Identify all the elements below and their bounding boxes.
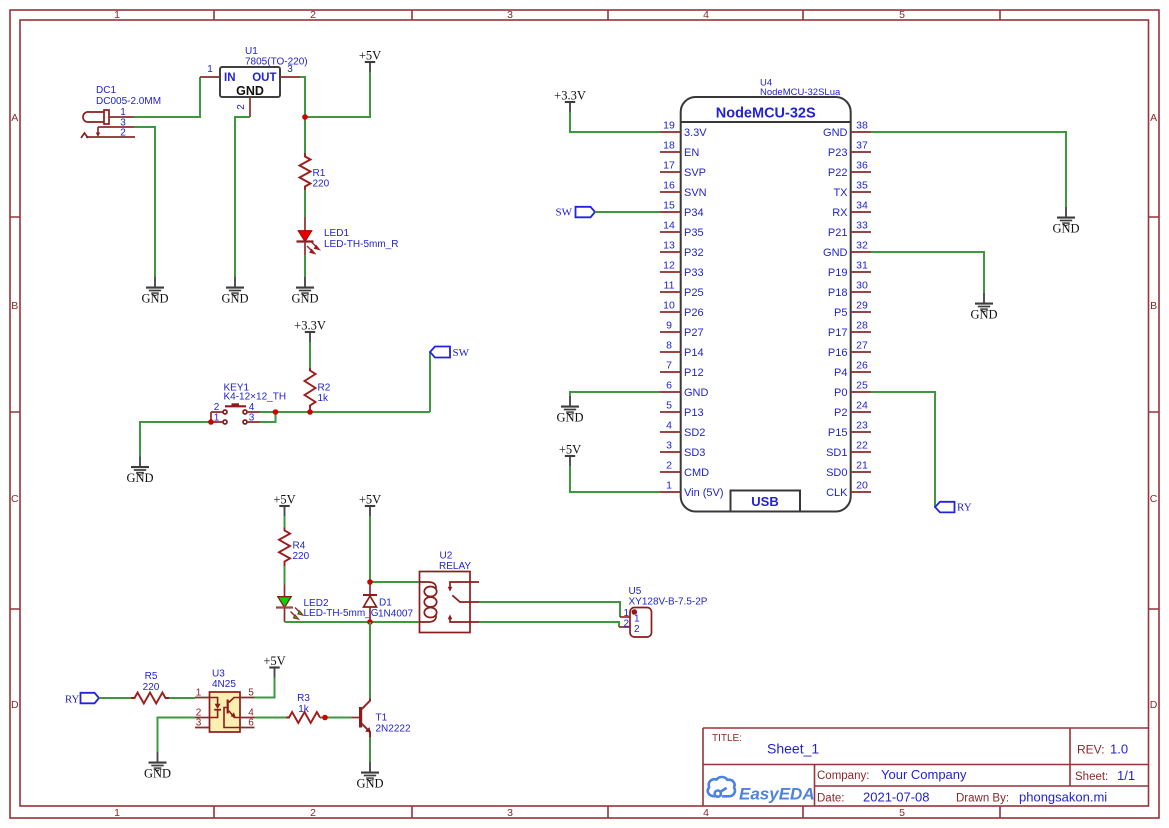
wire MCU pin25 to RY port bbox=[871, 392, 935, 507]
wire +5V to R4 bbox=[284, 516, 286, 528]
svg-text:P21: P21 bbox=[828, 227, 848, 239]
svg-text:R4: R4 bbox=[293, 541, 306, 552]
svg-text:12: 12 bbox=[663, 260, 675, 272]
svg-text:37: 37 bbox=[856, 140, 868, 152]
svg-text:1/1: 1/1 bbox=[1117, 768, 1135, 783]
junction (R3 / base) bbox=[322, 715, 328, 721]
svg-text:Date:: Date: bbox=[817, 793, 845, 805]
svg-text:P2: P2 bbox=[834, 407, 847, 419]
wire RY port to R5 bbox=[99, 697, 131, 699]
diode D1 1N4007 bbox=[363, 582, 413, 622]
svg-text:D1: D1 bbox=[379, 598, 392, 609]
svg-text:P22: P22 bbox=[828, 167, 848, 179]
svg-text:8: 8 bbox=[666, 340, 672, 352]
svg-text:2: 2 bbox=[120, 128, 126, 139]
net port SW (to MCU P34) bbox=[556, 207, 596, 219]
svg-text:RX: RX bbox=[832, 207, 848, 219]
svg-text:7805(TO-220): 7805(TO-220) bbox=[245, 57, 308, 68]
svg-text:35: 35 bbox=[856, 180, 868, 192]
svg-text:U3: U3 bbox=[212, 669, 225, 680]
regulator U1 7805(TO-220) bbox=[200, 46, 308, 117]
svg-text:GND: GND bbox=[141, 292, 168, 306]
svg-text:20: 20 bbox=[856, 480, 868, 492]
svg-text:D: D bbox=[11, 699, 19, 711]
resistor R3 1k bbox=[286, 693, 320, 723]
svg-text:REV:: REV: bbox=[1077, 743, 1105, 757]
svg-text:GND: GND bbox=[291, 292, 318, 306]
svg-text:B: B bbox=[11, 300, 18, 312]
svg-text:38: 38 bbox=[856, 120, 868, 132]
wire R1 to LED1 bbox=[304, 190, 306, 217]
net port SW (to key) bbox=[430, 347, 470, 360]
svg-text:5: 5 bbox=[248, 688, 254, 699]
wire R4 to LED2 bbox=[284, 566, 286, 585]
svg-text:5: 5 bbox=[899, 807, 905, 819]
svg-text:1: 1 bbox=[214, 413, 220, 424]
svg-text:Drawn By:: Drawn By: bbox=[956, 793, 1009, 805]
svg-text:33: 33 bbox=[856, 220, 868, 232]
resistor R2 1k bbox=[305, 368, 331, 412]
svg-text:SD2: SD2 bbox=[684, 427, 705, 439]
svg-text:RY: RY bbox=[65, 694, 80, 706]
LED LED1 LED-TH-5mm_R bbox=[297, 217, 399, 255]
svg-text:2021-07-08: 2021-07-08 bbox=[863, 790, 930, 805]
svg-text:SVP: SVP bbox=[684, 167, 706, 179]
svg-text:P17: P17 bbox=[828, 327, 848, 339]
svg-text:2: 2 bbox=[623, 619, 629, 630]
svg-text:P25: P25 bbox=[684, 287, 704, 299]
svg-text:24: 24 bbox=[856, 400, 868, 412]
wire MCU pin6 to GND bbox=[570, 392, 660, 396]
wire DC1.1 to U1.IN bbox=[134, 77, 200, 117]
svg-text:2: 2 bbox=[214, 402, 220, 413]
svg-text:SD0: SD0 bbox=[826, 467, 847, 479]
svg-text:1k: 1k bbox=[298, 704, 310, 715]
svg-text:220: 220 bbox=[293, 551, 310, 562]
svg-text:+5V: +5V bbox=[559, 443, 581, 457]
svg-text:B: B bbox=[1150, 300, 1157, 312]
wire SW port to pin15 bbox=[595, 211, 660, 213]
svg-text:1k: 1k bbox=[318, 393, 330, 404]
svg-text:2: 2 bbox=[236, 104, 247, 110]
ground GND (MCU pin38) bbox=[1052, 207, 1079, 236]
power flag +5V (R4) bbox=[273, 493, 295, 517]
svg-text:P4: P4 bbox=[834, 367, 847, 379]
svg-text:5: 5 bbox=[899, 9, 905, 21]
wire U3.4 to R3 bbox=[255, 717, 287, 719]
svg-text:+5V: +5V bbox=[263, 654, 285, 668]
svg-text:3: 3 bbox=[507, 807, 513, 819]
svg-text:3: 3 bbox=[287, 64, 293, 75]
svg-text:29: 29 bbox=[856, 300, 868, 312]
svg-text:17: 17 bbox=[663, 160, 675, 172]
wire +5V to MCU pin1 bbox=[570, 466, 660, 492]
net port RY (from MCU P0) bbox=[935, 502, 972, 514]
wire U3.2 to GND bbox=[158, 718, 196, 753]
resistor R4 220 bbox=[279, 528, 310, 567]
svg-text:11: 11 bbox=[664, 280, 675, 292]
power flag +5V (MCU Vin) bbox=[559, 443, 581, 467]
svg-text:34: 34 bbox=[856, 200, 868, 212]
wire KEY1.1 to GND bbox=[140, 422, 211, 457]
push button KEY1 K4-12x12_TH bbox=[211, 383, 286, 425]
svg-text:19: 19 bbox=[663, 120, 675, 132]
svg-text:3.3V: 3.3V bbox=[684, 127, 707, 139]
junction (KEY1 left) bbox=[208, 419, 214, 425]
svg-text:1: 1 bbox=[623, 608, 629, 619]
svg-text:10: 10 bbox=[663, 300, 675, 312]
svg-text:28: 28 bbox=[856, 320, 868, 332]
svg-text:R3: R3 bbox=[297, 693, 310, 704]
svg-text:GND: GND bbox=[144, 767, 171, 781]
svg-text:P18: P18 bbox=[828, 287, 848, 299]
svg-text:9: 9 bbox=[666, 320, 672, 332]
svg-text:P14: P14 bbox=[684, 347, 704, 359]
svg-text:30: 30 bbox=[856, 280, 868, 292]
svg-text:XY128V-B-7.5-2P: XY128V-B-7.5-2P bbox=[629, 597, 708, 608]
junction (R2 / SW net) bbox=[307, 409, 313, 415]
EasyEDA logo bbox=[708, 777, 815, 803]
svg-text:23: 23 bbox=[856, 420, 868, 432]
svg-text:220: 220 bbox=[143, 682, 160, 693]
svg-text:P33: P33 bbox=[684, 267, 704, 279]
svg-text:7: 7 bbox=[666, 360, 672, 372]
junction (D1 bottom / LED2 / collector) bbox=[367, 619, 373, 625]
svg-text:SW: SW bbox=[556, 207, 573, 219]
svg-text:GND: GND bbox=[684, 387, 709, 399]
svg-text:1: 1 bbox=[666, 480, 672, 492]
wire R3 to T1 base bbox=[321, 717, 352, 719]
wire MCU pin32 to GND bbox=[871, 252, 984, 293]
transistor T1 2N2222 bbox=[352, 699, 411, 738]
svg-text:2: 2 bbox=[634, 624, 640, 635]
svg-text:P13: P13 bbox=[684, 407, 704, 419]
svg-text:4: 4 bbox=[703, 9, 709, 21]
svg-text:6: 6 bbox=[248, 718, 254, 729]
ground GND (LED1) bbox=[291, 277, 318, 306]
svg-text:Company:: Company: bbox=[817, 770, 869, 782]
svg-text:+5V: +5V bbox=[359, 49, 381, 63]
svg-text:T1: T1 bbox=[376, 713, 388, 724]
wire LED1 to GND bbox=[304, 255, 306, 277]
svg-text:31: 31 bbox=[856, 260, 868, 272]
wire junction to relay coil bottom bbox=[370, 621, 420, 623]
power flag +5V (U3 collector) bbox=[263, 654, 285, 678]
svg-text:SD3: SD3 bbox=[684, 447, 705, 459]
svg-text:SW: SW bbox=[453, 347, 470, 359]
power flag +3.3V (R2 pull-up) bbox=[294, 319, 326, 343]
wire U3.5 to +5V bbox=[255, 678, 275, 698]
svg-text:4N25: 4N25 bbox=[212, 679, 236, 690]
wire U1.GND to GND bbox=[235, 117, 250, 277]
svg-text:3: 3 bbox=[196, 718, 202, 729]
svg-text:+5V: +5V bbox=[359, 493, 381, 507]
svg-text:OUT: OUT bbox=[252, 72, 276, 84]
resistor R5 220 bbox=[131, 671, 169, 704]
connector DC1 DC005-2.0MM bbox=[81, 85, 161, 139]
junction (KEY1 right) bbox=[273, 409, 279, 415]
ground GND (U3) bbox=[144, 752, 171, 781]
svg-text:3: 3 bbox=[249, 413, 255, 424]
svg-text:DC1: DC1 bbox=[96, 85, 116, 96]
net port RY (input, left) bbox=[65, 693, 99, 706]
svg-text:4: 4 bbox=[666, 420, 672, 432]
svg-text:18: 18 bbox=[663, 140, 675, 152]
svg-text:GND: GND bbox=[1052, 222, 1079, 236]
svg-text:GND: GND bbox=[126, 471, 153, 485]
svg-text:R5: R5 bbox=[145, 671, 158, 682]
wire +5V down to D1 top junction bbox=[369, 516, 371, 582]
wire MCU pin38 to GND bbox=[871, 132, 1066, 207]
svg-text:1: 1 bbox=[634, 614, 640, 625]
svg-text:P27: P27 bbox=[684, 327, 704, 339]
svg-text:5: 5 bbox=[666, 400, 672, 412]
svg-text:1.0: 1.0 bbox=[1110, 742, 1128, 757]
svg-text:C: C bbox=[11, 493, 19, 505]
svg-text:GND: GND bbox=[970, 308, 997, 322]
svg-text:LED-TH-5mm_R: LED-TH-5mm_R bbox=[324, 239, 398, 250]
svg-text:TX: TX bbox=[833, 187, 848, 199]
svg-text:RY: RY bbox=[957, 502, 972, 514]
svg-text:P16: P16 bbox=[828, 347, 848, 359]
svg-text:21: 21 bbox=[856, 460, 868, 472]
svg-text:R2: R2 bbox=[318, 383, 331, 394]
svg-text:GND: GND bbox=[236, 84, 264, 98]
wire KEY1.4/3 to SW net bbox=[260, 412, 276, 422]
wire LED2 to junction bbox=[285, 621, 371, 623]
svg-text:EN: EN bbox=[684, 147, 699, 159]
LED LED2 LED-TH-5mm_G bbox=[276, 585, 379, 623]
svg-text:EasyEDA: EasyEDA bbox=[739, 785, 815, 804]
power flag +5V (relay coil) bbox=[359, 493, 381, 517]
wire relay NO to U5.2 bbox=[479, 622, 619, 627]
optocoupler U3 4N25 bbox=[195, 669, 255, 733]
wire DC1.3 to GND bbox=[134, 127, 155, 277]
svg-text:36: 36 bbox=[856, 160, 868, 172]
svg-text:25: 25 bbox=[856, 380, 868, 392]
wire SW net up to port bbox=[429, 352, 431, 412]
svg-text:Sheet:: Sheet: bbox=[1075, 771, 1108, 783]
svg-text:+3.3V: +3.3V bbox=[554, 89, 586, 103]
svg-text:LED1: LED1 bbox=[324, 228, 349, 239]
svg-text:GND: GND bbox=[823, 127, 848, 139]
svg-text:4: 4 bbox=[249, 402, 255, 413]
junction (U1.OUT / +5V / R1) bbox=[302, 114, 308, 120]
MCU U4 NodeMCU-32SLua bbox=[660, 78, 871, 512]
wire R5 to U3.1 bbox=[169, 697, 195, 699]
relay U2 bbox=[420, 551, 480, 633]
junction (D1 top / coil) bbox=[367, 579, 373, 585]
svg-text:2: 2 bbox=[310, 9, 316, 21]
svg-text:GND: GND bbox=[556, 411, 583, 425]
svg-text:P34: P34 bbox=[684, 207, 704, 219]
svg-text:26: 26 bbox=[856, 360, 868, 372]
power flag +3.3V (MCU) bbox=[554, 89, 586, 113]
wire +3.3V to MCU pin19 bbox=[570, 112, 660, 132]
svg-text:Your Company: Your Company bbox=[881, 767, 967, 782]
svg-text:SVN: SVN bbox=[684, 187, 707, 199]
svg-text:P0: P0 bbox=[834, 387, 847, 399]
wire junction to relay coil top bbox=[370, 581, 420, 583]
svg-text:6: 6 bbox=[666, 380, 672, 392]
svg-text:1: 1 bbox=[114, 807, 120, 819]
wire +3.3V to R2 bbox=[309, 342, 311, 368]
svg-text:32: 32 bbox=[856, 240, 868, 252]
svg-text:27: 27 bbox=[856, 340, 868, 352]
svg-text:14: 14 bbox=[663, 220, 675, 232]
svg-text:P35: P35 bbox=[684, 227, 704, 239]
svg-text:1: 1 bbox=[207, 64, 213, 75]
svg-text:P12: P12 bbox=[684, 367, 704, 379]
ground GND (T1) bbox=[356, 762, 383, 791]
svg-text:16: 16 bbox=[663, 180, 675, 192]
svg-text:D: D bbox=[1150, 699, 1158, 711]
svg-text:C: C bbox=[1150, 493, 1158, 505]
svg-text:R1: R1 bbox=[313, 168, 326, 179]
ground GND (KEY1) bbox=[126, 457, 153, 486]
svg-text:P23: P23 bbox=[828, 147, 848, 159]
power flag +5V (regulator output) bbox=[359, 49, 381, 73]
svg-text:CMD: CMD bbox=[684, 467, 709, 479]
svg-text:phongsakon.mi: phongsakon.mi bbox=[1019, 790, 1107, 805]
ground GND (DC1) bbox=[141, 277, 168, 306]
svg-text:3: 3 bbox=[666, 440, 672, 452]
svg-text:2: 2 bbox=[666, 460, 672, 472]
svg-text:4: 4 bbox=[703, 807, 709, 819]
ground GND (MCU pin6) bbox=[556, 396, 583, 425]
wire U1.OUT to +5V node bbox=[300, 72, 370, 117]
wire T1 emitter to GND bbox=[369, 738, 371, 763]
svg-text:LED-TH-5mm_G: LED-TH-5mm_G bbox=[304, 608, 379, 619]
wire +5V node to R1 bbox=[304, 117, 306, 153]
wire SW net horizontal run bbox=[276, 411, 431, 413]
svg-text:NodeMCU-32S: NodeMCU-32S bbox=[716, 106, 816, 122]
svg-text:P19: P19 bbox=[828, 267, 848, 279]
svg-text:SD1: SD1 bbox=[826, 447, 847, 459]
svg-text:+5V: +5V bbox=[273, 493, 295, 507]
svg-text:Vin (5V): Vin (5V) bbox=[684, 487, 724, 499]
svg-text:K4-12×12_TH: K4-12×12_TH bbox=[224, 392, 287, 403]
svg-text:IN: IN bbox=[224, 72, 236, 84]
svg-text:TITLE:: TITLE: bbox=[712, 733, 742, 744]
svg-text:15: 15 bbox=[663, 200, 675, 212]
svg-text:1: 1 bbox=[114, 9, 120, 21]
svg-text:+3.3V: +3.3V bbox=[294, 319, 326, 333]
svg-text:1: 1 bbox=[120, 107, 126, 118]
wire relay common to U5.1 bbox=[479, 602, 620, 617]
svg-text:P26: P26 bbox=[684, 307, 704, 319]
svg-text:CLK: CLK bbox=[826, 487, 848, 499]
svg-text:A: A bbox=[11, 112, 18, 124]
svg-text:A: A bbox=[1150, 112, 1157, 124]
svg-text:Sheet_1: Sheet_1 bbox=[767, 741, 819, 757]
svg-text:1N4007: 1N4007 bbox=[378, 609, 413, 620]
svg-text:GND: GND bbox=[221, 292, 248, 306]
ground GND (MCU pin32) bbox=[970, 293, 997, 322]
svg-text:2N2222: 2N2222 bbox=[376, 724, 411, 735]
connector U5 XY128V-B-7.5-2P bbox=[619, 586, 708, 637]
svg-text:USB: USB bbox=[751, 494, 778, 509]
svg-text:P5: P5 bbox=[834, 307, 847, 319]
svg-text:22: 22 bbox=[856, 440, 868, 452]
title block bbox=[703, 728, 1149, 806]
svg-text:P32: P32 bbox=[684, 247, 704, 259]
svg-text:3: 3 bbox=[507, 9, 513, 21]
svg-text:1: 1 bbox=[196, 688, 202, 699]
svg-text:220: 220 bbox=[313, 179, 330, 190]
ground GND (U1) bbox=[221, 277, 248, 306]
svg-text:GND: GND bbox=[356, 777, 383, 791]
svg-text:RELAY: RELAY bbox=[439, 561, 471, 572]
svg-text:2: 2 bbox=[310, 807, 316, 819]
svg-text:U5: U5 bbox=[629, 586, 642, 597]
wire D1 bottom to T1 collector bbox=[369, 622, 371, 699]
svg-text:U1: U1 bbox=[245, 46, 258, 57]
resistor R1 220 bbox=[300, 153, 330, 190]
svg-text:P15: P15 bbox=[828, 427, 848, 439]
svg-text:13: 13 bbox=[663, 240, 675, 252]
svg-text:U2: U2 bbox=[440, 551, 453, 562]
svg-text:DC005-2.0MM: DC005-2.0MM bbox=[96, 96, 161, 107]
svg-text:GND: GND bbox=[823, 247, 848, 259]
